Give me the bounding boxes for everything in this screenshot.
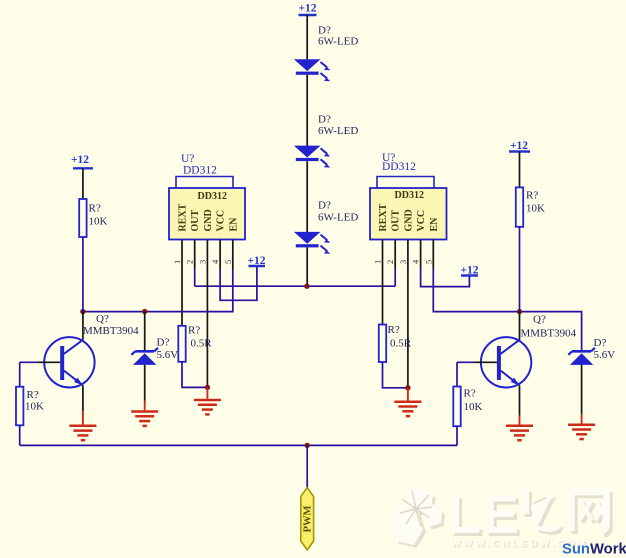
svg-text:U?: U?	[181, 153, 194, 165]
svg-text:4: 4	[411, 259, 421, 264]
svg-text:2: 2	[185, 260, 195, 264]
ground under U2 GND	[394, 402, 421, 416]
op-amp U1 (LED driver DD312) body	[169, 177, 245, 240]
svg-text:5.6V: 5.6V	[594, 349, 616, 361]
wire node to zener D4	[144, 312, 146, 352]
ground under Q1 emitter	[69, 426, 96, 440]
wire R4 to GND line	[383, 362, 408, 388]
wire base branch to R6	[456, 362, 458, 386]
junction node B (collector Q2)	[517, 309, 522, 314]
svg-text:Q?: Q?	[96, 313, 109, 325]
resistor R4 0.5R	[379, 325, 386, 363]
LED D2	[296, 146, 331, 167]
U2 pin 3 stub	[407, 240, 409, 270]
LED D3	[296, 233, 331, 254]
svg-text:2: 2	[385, 260, 395, 264]
svg-text:0.5R: 0.5R	[191, 338, 213, 350]
junction GND node right	[405, 385, 410, 390]
svg-text:R?: R?	[526, 190, 538, 202]
wire OUT bus (net between U1 pin2, U2 pin2 and LED string)	[195, 285, 396, 287]
watermark wang glyph	[572, 492, 611, 535]
svg-text:PWM: PWM	[303, 506, 314, 533]
svg-text:D?: D?	[318, 200, 331, 212]
wire D5 to ground	[581, 365, 583, 414]
svg-text:D?: D?	[157, 337, 170, 349]
svg-text:10K: 10K	[89, 216, 108, 228]
svg-text:SunWork: SunWork	[562, 542, 626, 558]
junction PWM node	[305, 443, 310, 448]
svg-text:1: 1	[172, 260, 182, 264]
svg-text:R?: R?	[89, 203, 101, 215]
svg-text:6W-LED: 6W-LED	[318, 36, 358, 48]
wire U2 pin4 to +12	[421, 269, 470, 287]
wire GND stem right	[407, 388, 409, 401]
junction zener D4 tap	[142, 309, 147, 314]
wire node B to Q2 collector	[519, 312, 521, 340]
wire +12 to R2	[519, 152, 521, 188]
wire Q2 emitter down	[519, 385, 521, 415]
port PWM	[301, 488, 314, 550]
svg-text:DD312: DD312	[183, 165, 217, 177]
svg-text:0.5R: 0.5R	[390, 338, 412, 350]
svg-text:DD312: DD312	[395, 190, 424, 201]
svg-text:GND: GND	[403, 209, 414, 231]
wire U1 pin3 GND line	[206, 269, 208, 387]
wire base branch to R5	[19, 362, 21, 386]
zener diode D5 5.6V	[568, 348, 595, 365]
svg-text:OUT: OUT	[391, 210, 402, 232]
svg-text:+12: +12	[71, 154, 89, 166]
watermark LE letters	[448, 483, 611, 550]
svg-text:REXT: REXT	[378, 203, 389, 231]
svg-text:10K: 10K	[464, 401, 483, 413]
junction LED node	[304, 284, 309, 289]
svg-text:10K: 10K	[25, 401, 44, 413]
U1 pin 4 stub	[219, 240, 221, 270]
transistor Q1 MMBT3904	[44, 337, 94, 387]
wire U1 pin4 to +12	[220, 266, 257, 300]
wire U2 pin5 EN net to node B and zener D5	[433, 269, 581, 351]
ground under D4	[131, 412, 158, 426]
wire U2 pin1 to R4	[382, 269, 384, 325]
U1 pin 5 stub	[232, 240, 234, 270]
power +12 near U1	[247, 255, 265, 267]
wire bottom PWM bus	[20, 444, 457, 446]
svg-text:+12: +12	[298, 3, 316, 15]
svg-text:R?: R?	[188, 325, 200, 337]
svg-text:5: 5	[223, 260, 233, 264]
svg-text:DD312: DD312	[382, 161, 416, 173]
svg-text:MMBT3904: MMBT3904	[83, 325, 139, 337]
LED D1	[296, 60, 331, 81]
wire R2 to node B	[519, 227, 521, 312]
wire U1 pin1 to R3	[181, 269, 183, 326]
wire +12 to R1	[82, 168, 84, 199]
U1 pin 2 stub	[194, 240, 196, 270]
wire U2 pin3 GND line	[407, 269, 409, 388]
U2 pin 5 stub	[432, 240, 434, 270]
wire GND stem left	[206, 387, 208, 398]
wire R3 to GND line	[182, 362, 207, 388]
wire U1 pin5 EN net to node A	[83, 269, 233, 312]
wire Q2 base	[474, 361, 497, 363]
svg-text:D?: D?	[594, 337, 607, 349]
wire D1 to D2	[306, 75, 308, 147]
wire D2 to D3	[306, 161, 308, 233]
svg-text:6W-LED: 6W-LED	[318, 212, 358, 224]
svg-text:3: 3	[197, 260, 207, 264]
power +12 near U2	[460, 265, 478, 277]
svg-text:VCC: VCC	[416, 210, 427, 232]
wire U2 pin2 to OUT bus	[394, 269, 396, 286]
wire Q1 emitter down	[82, 385, 84, 411]
svg-text:REXT: REXT	[178, 203, 189, 231]
svg-text:R?: R?	[464, 388, 476, 400]
ground under D5	[568, 425, 595, 439]
resistor R5 10K (bottom left)	[16, 387, 23, 426]
svg-text:R?: R?	[388, 324, 400, 336]
svg-text:5.6V: 5.6V	[157, 349, 179, 361]
U2 pin 4 stub	[420, 240, 422, 270]
power +12 top left	[71, 154, 93, 168]
wire R6 to bottom bus	[456, 426, 458, 445]
transistor Q2 MMBT3904	[481, 337, 531, 387]
watermark LED logo bottom right (starburst badge)	[389, 487, 445, 548]
U1 pin 3 stub	[206, 240, 208, 270]
svg-text:1: 1	[373, 260, 383, 264]
ground under Q2 emitter	[506, 426, 533, 440]
wire D4 to ground	[144, 365, 146, 401]
U2 pin 1 stub	[382, 240, 384, 270]
junction node A (collector Q1)	[80, 309, 85, 314]
U1 pin 1 stub	[181, 240, 183, 270]
wire U1 pin2 to OUT bus	[194, 269, 196, 286]
ground under U1 GND	[194, 400, 221, 414]
svg-text:OUT: OUT	[190, 210, 201, 232]
watermark stylized D glyph	[522, 489, 565, 535]
svg-text:5: 5	[423, 260, 433, 264]
wire R5 to bottom bus	[19, 425, 21, 445]
svg-text:3: 3	[398, 260, 408, 264]
svg-text:6W-LED: 6W-LED	[318, 125, 358, 137]
power +12 top middle	[298, 3, 316, 16]
op-amp U2 (LED driver DD312) body	[370, 177, 447, 240]
svg-text:EN: EN	[228, 217, 239, 232]
svg-text:Q?: Q?	[533, 314, 546, 326]
resistor R1 10K	[79, 199, 86, 237]
wire R1 to node A	[82, 237, 84, 312]
wire node A to Q1 collector	[82, 312, 84, 340]
wire Q1 base	[38, 361, 60, 363]
svg-text:LE: LE	[448, 483, 520, 545]
wire +12 to LED D1	[306, 15, 308, 60]
svg-text:VCC: VCC	[216, 210, 227, 232]
svg-text:EN: EN	[429, 217, 440, 232]
power +12 top right	[509, 140, 530, 152]
svg-text:D?: D?	[318, 114, 331, 126]
wire D3 to OUT bus	[306, 247, 308, 286]
resistor R3 0.5R	[178, 326, 185, 362]
svg-text:10K: 10K	[526, 203, 545, 215]
svg-text:4: 4	[210, 259, 220, 264]
svg-text:R?: R?	[27, 389, 39, 401]
svg-text:DD312: DD312	[198, 191, 227, 202]
U2 pin 2 stub	[394, 240, 396, 270]
resistor R6 10K (bottom right)	[453, 387, 460, 427]
svg-text:GND: GND	[203, 209, 214, 231]
svg-text:MMBT3904: MMBT3904	[521, 328, 577, 340]
junction GND node left	[205, 385, 210, 390]
wire PWM node to port	[306, 445, 308, 487]
zener diode D4 5.6V	[131, 348, 158, 365]
resistor R2 10K	[516, 187, 523, 226]
